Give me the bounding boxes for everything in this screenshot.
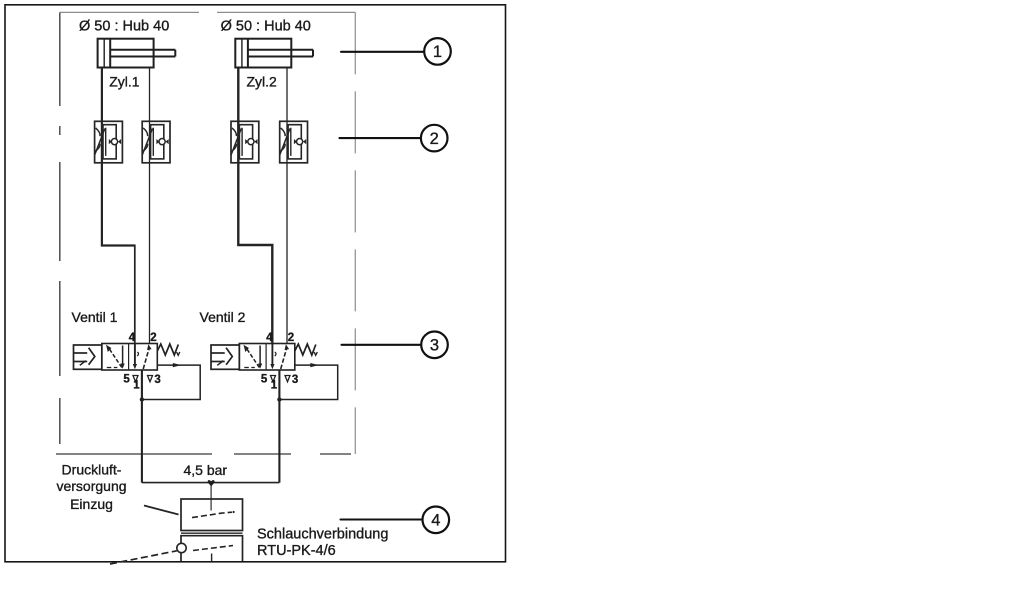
svg-text:1: 1	[433, 43, 442, 61]
svg-text:Ventil 1: Ventil 1	[72, 309, 118, 325]
svg-text:Zyl.1: Zyl.1	[109, 73, 140, 89]
svg-text:4,5 bar: 4,5 bar	[184, 462, 228, 478]
svg-text:Schlauchverbindung: Schlauchverbindung	[257, 526, 388, 542]
svg-text:2: 2	[430, 130, 439, 148]
svg-text:3: 3	[430, 337, 439, 355]
svg-text:Zyl.2: Zyl.2	[247, 73, 278, 89]
svg-text:Druckluft-: Druckluft-	[62, 461, 122, 477]
svg-text:Ventil 2: Ventil 2	[200, 309, 246, 325]
svg-text:4: 4	[431, 512, 440, 530]
svg-text:RTU-PK-4/6: RTU-PK-4/6	[257, 543, 336, 559]
svg-text:versorgung: versorgung	[56, 478, 126, 494]
svg-text:Ø 50 : Hub 40: Ø 50 : Hub 40	[79, 18, 169, 34]
svg-text:Einzug: Einzug	[70, 496, 113, 512]
svg-text:Ø 50 : Hub 40: Ø 50 : Hub 40	[221, 18, 311, 34]
